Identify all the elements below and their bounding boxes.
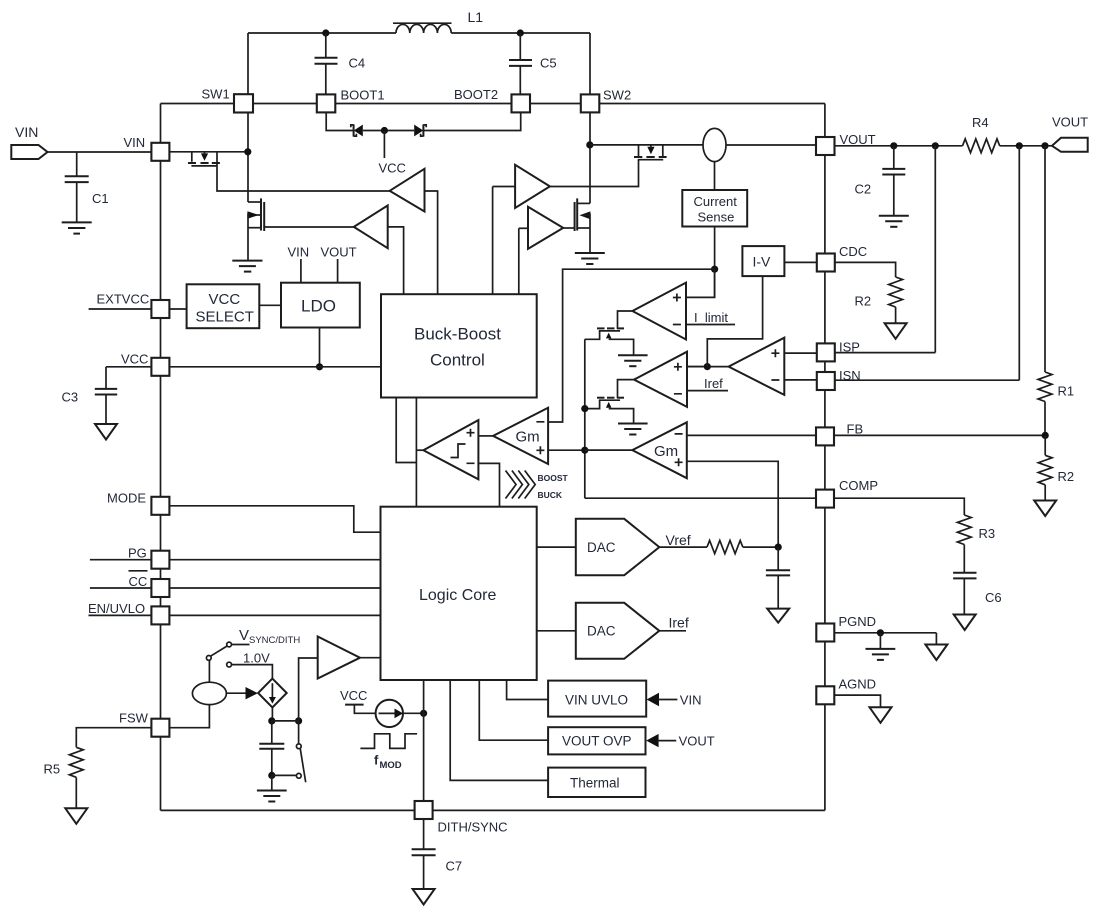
svg-text:LDO: LDO [301,297,336,316]
svg-text:R1: R1 [1058,384,1075,399]
ground C3 [95,424,117,440]
wire U8 plus to ISP [784,352,816,354]
capacitor C1 [65,152,109,222]
node LDO VCC rail junction [316,363,323,370]
node ISN sense junction [1016,142,1023,149]
pin CDC [817,244,867,272]
wire Gm1 output [585,449,633,451]
pin EN/UVLO stub [88,601,151,616]
wire VOUT rail [835,145,1052,147]
wire PGND pin [835,632,937,634]
resistor R2 divider [1038,435,1074,500]
pin EN/UVLO [151,606,169,624]
wire VOUT arrow input [646,734,715,749]
wire VCC pin to C3 [106,366,151,368]
capacitor C2 [855,146,906,216]
svg-text:VIN: VIN [288,245,310,260]
svg-text:VCC: VCC [340,688,367,703]
svg-text:PGND: PGND [839,614,877,629]
wire Gm1 plus to Vref node [687,461,778,547]
svg-text:VOUT: VOUT [679,734,715,749]
svg-text:R2: R2 [855,294,872,309]
wire current sense output [714,227,716,298]
wire ellipse to diamond arrow [226,687,258,699]
svg-text:R5: R5 [44,762,61,777]
block DAC Vref [576,519,660,576]
wire Q2 gate to driver [264,226,354,228]
svg-text:I-V: I-V [753,254,772,270]
svg-text:C5: C5 [540,56,557,71]
block VCC SELECT [187,284,260,328]
ground dither cap [257,775,287,801]
wire logic to DAC2 [537,630,576,632]
resistor R1 [1038,372,1074,435]
node U8 output junction [704,363,711,370]
svg-text:Current: Current [694,194,738,209]
current source fMOD [376,700,404,727]
wire dither node to buffer [299,658,318,721]
wire U8 minus to ISN [784,379,816,381]
wire U7 minus stub Iref [687,376,728,391]
wire chip left boundary [160,104,162,811]
block Thermal [548,768,645,797]
wire COMP rail [585,498,965,515]
svg-text:ISP: ISP [839,340,860,355]
svg-text:VCC: VCC [209,291,241,308]
wire U9 to logic core [360,657,381,659]
resistor R3 [957,515,995,572]
ground C2 [879,216,909,227]
node dither cap top [268,717,275,724]
svg-text:Gm: Gm [516,429,540,446]
wire LDO output to VCC rail [319,328,321,367]
wire Gm1 minus FB wire [687,434,1046,436]
svg-text:VOUT: VOUT [1052,115,1088,130]
wire Gm2 plus input [548,449,585,451]
buffer U4 gate driver Q4 [519,207,563,294]
transistor M1 clamp [585,328,634,355]
pad VOUT output [1052,115,1088,152]
wire BOOT1 bootstrap stub [326,112,353,130]
svg-text:VIN: VIN [124,135,146,150]
wire U8 output to I-V [707,276,762,367]
pin VOUT [816,132,876,155]
comparator U6 I_limit [632,283,686,340]
current source ellipse FSW [192,660,226,704]
wire sense signal to Gm2 minus [548,269,715,422]
supply VCC fmod [340,688,376,713]
block DAC Iref [576,603,660,659]
ground PGND triangle [925,633,947,660]
capacitor C6 [953,573,1002,615]
wire top rail [248,32,590,34]
wire Iref output stub [659,615,689,631]
pin PGND [816,614,876,642]
pin EXTVCC [151,300,169,318]
node C2 junction [890,142,897,149]
svg-text:C4: C4 [349,56,366,71]
capacitor Vref filter [766,547,790,609]
pin ISP [817,340,860,362]
wire VCC stub from diode node [379,131,406,176]
svg-text:BUCK: BUCK [538,490,563,500]
wire FSW to switch pole [170,705,210,728]
inductor L1 [393,9,483,33]
ground M1 [618,355,648,366]
node dither switch top [295,717,302,724]
resistor Vref filter [707,541,743,554]
pin BOOT1 [317,88,385,113]
diode D1 bootstrap [351,124,363,136]
svg-text:L1: L1 [468,9,484,25]
svg-text:C6: C6 [985,590,1002,605]
wire ISP feedback [835,146,936,353]
wire CC to logic core [170,587,381,589]
node SW1 switch junction [244,148,251,155]
wire U6 output to M1 [618,311,633,329]
wire U6 minus stub I_limit [686,310,735,325]
block I-V converter [742,246,784,276]
wire Q1 gate to driver [217,152,390,191]
ground Q2 source [232,261,262,272]
wire AGND pin [835,695,881,707]
wire VCC SELECT to LDO [259,304,281,306]
node Gm1 output junction [581,447,588,454]
current sense probe [703,128,726,161]
node current sense output junction [711,266,718,273]
node PGND junction [877,629,884,636]
wire contact VSYNC stub [232,627,301,646]
ground R5 [65,808,87,824]
block VOUT OVP [548,727,645,754]
wire MODE to logic core [170,506,381,532]
svg-text:Control: Control [430,351,485,370]
svg-text:R4: R4 [972,115,989,130]
capacitor C7 [412,849,463,889]
wire DITH/SYNC to C7 [423,819,425,849]
wire diamond to cap node [271,707,273,721]
ground Vref filter [767,609,789,623]
wire U7 plus input [687,366,707,368]
transistor Q3 high-side PMOS boost leg [634,145,667,160]
switch dither shorting [272,721,306,782]
svg-text:VIN: VIN [680,693,702,708]
block Current Sense [682,190,747,227]
comparator U5 hysteretic mode [416,420,478,479]
wire SW1 column [247,33,249,202]
pin AGND [816,677,876,705]
svg-text:Iref: Iref [669,615,689,631]
node SW2 switch junction [586,141,593,148]
wire SW2 node to Q3 [590,144,703,146]
ground C1 [62,222,92,233]
svg-text:C7: C7 [446,859,463,874]
diode D2 bootstrap [414,124,426,136]
comparator U7 Iref [634,352,687,407]
wire BB control to logic core jog [396,398,416,463]
node C5 top rail junction [517,29,524,36]
svg-text:AGND: AGND [839,677,877,692]
svg-text:VOUT: VOUT [840,132,876,147]
wire Vref output [659,532,707,548]
wire VIN arrow input [647,693,702,708]
pin MODE [107,491,169,515]
wire U6 plus input [686,269,715,297]
svg-text:C1: C1 [92,191,109,206]
wire R1 top [1044,146,1046,372]
wire LDO VIN input stub [288,245,310,283]
svg-text:DITH/SYNC: DITH/SYNC [438,820,508,835]
wire logic to thermal [450,680,548,780]
svg-text:MOD: MOD [380,760,402,771]
capacitor C5 [509,33,557,95]
svg-text:VCC: VCC [379,161,406,176]
node feedback top junction [1041,142,1048,149]
ground M2 [618,424,648,435]
wire CDC pin to R2 [835,262,896,277]
block LDO [281,283,360,328]
wire U8 output to U7 [687,366,729,368]
svg-text:VCC: VCC [121,352,148,367]
svg-text:C3: C3 [62,390,79,405]
wire I-V to CDC pin [784,261,816,263]
wire U5 minus input to logic core [478,463,499,506]
pin ISN [817,368,861,390]
pad VIN input [11,124,47,159]
svg-text:DAC: DAC [587,540,616,555]
pin CC stub [90,571,151,589]
pin COMP [816,478,878,508]
block Logic Core [381,507,537,680]
wire gate bias rail [584,339,586,498]
wire BB control to hysteresis comparator output [415,398,417,507]
svg-text:Gm: Gm [654,443,678,460]
amplifier Gm1 error amp [632,422,687,478]
svg-text:VIN: VIN [15,124,38,140]
pin DITH/SYNC [415,801,508,835]
ground R2 [885,323,907,339]
pin PG [151,551,169,569]
svg-text:BOOT2: BOOT2 [454,87,498,102]
wire EN/UVLO to logic core [170,614,381,616]
svg-text:f: f [374,753,379,768]
wire SW2 column [589,33,591,203]
capacitor C4 [315,33,366,95]
wire between diodes [363,130,414,132]
wire diode to BOOT2 [423,112,520,131]
pin VIN [124,135,170,161]
pin BOOT2 [454,87,530,112]
transistor Q2 low-side NMOS buck leg [247,198,264,260]
ground AGND [870,707,892,723]
svg-text:SELECT: SELECT [196,309,254,326]
wire EXTVCC to VCC SELECT [170,308,187,310]
wire probe to current sense box [714,162,716,190]
transistor M2 clamp [585,398,634,424]
wire logic to vin uvlo [507,680,548,700]
svg-text:BOOST: BOOST [538,473,569,483]
node M2 gate junction [581,405,588,412]
pin EXTVCC stub [89,292,152,310]
node Vref RC junction [775,544,782,551]
wire chip right boundary [824,104,826,811]
ground C6 [954,615,976,631]
wire DITH/SYNC column [423,680,425,801]
svg-text:Buck-Boost: Buck-Boost [414,325,501,344]
block VIN UVLO [548,681,646,717]
svg-text:Vref: Vref [666,532,691,548]
transistor Q1 high-side PMOS buck leg [170,152,245,166]
transistor Q4 low-side NMOS boost leg [575,198,591,252]
svg-text:R2: R2 [1058,469,1075,484]
ground R2 divider [1034,501,1056,517]
resistor R5 [44,747,84,808]
wire logic to DAC1 [537,546,576,548]
svg-text:Logic Core: Logic Core [419,587,496,604]
svg-text:FSW: FSW [119,711,149,726]
wire VCC rail [170,366,381,368]
amplifier U8 current sense diff amp [729,338,785,395]
node dither cap bottom [268,772,275,779]
wire chip top edge through SW pins [161,103,825,105]
svg-text:SW2: SW2 [603,88,631,103]
svg-text:EXTVCC: EXTVCC [97,292,150,307]
svg-text:BOOT1: BOOT1 [341,88,385,103]
wire ISN feedback [835,146,1020,380]
wire dither node rail [272,720,299,722]
svg-text:EN/UVLO: EN/UVLO [88,601,145,616]
svg-text:I_limit: I_limit [694,310,728,325]
svg-text:R3: R3 [979,526,996,541]
capacitor dither [259,721,284,776]
svg-text:SYNC/DITH: SYNC/DITH [249,635,300,646]
buffer U3 gate driver Q3 [493,165,550,294]
wire VIN pad to pin [48,151,152,153]
svg-text:Sense: Sense [698,210,735,225]
node FB divider junction [1042,432,1049,439]
svg-text:PG: PG [128,546,147,561]
block Buck-Boost Control [381,294,537,397]
dependent source diamond [258,679,287,708]
wire fMOD source output [403,712,424,714]
pin SW2 [581,88,631,113]
ground Q4 source [575,253,605,264]
wire U3 output to Q3 gate [550,160,639,187]
wire probe to VOUT pin [726,144,816,146]
node ISP sense junction [932,142,939,149]
svg-text:CDC: CDC [839,244,867,259]
switch SYNC/DITH select [206,642,231,667]
svg-text:1.0V: 1.0V [243,651,270,666]
svg-text:VIN UVLO: VIN UVLO [565,693,628,708]
svg-text:VOUT OVP: VOUT OVP [562,734,632,749]
buffer U9 sync input [318,637,360,679]
wire filter to node [743,546,778,548]
resistor R2 compensation [855,277,903,323]
pin CC [151,579,169,597]
svg-text:VOUT: VOUT [321,245,357,260]
amplifier Gm2 [478,408,548,464]
node SW1 top rail / C4 junction [322,29,329,36]
wire U4 output to Q4 gate [563,227,574,229]
ground C7 [413,889,435,905]
svg-text:V: V [239,627,249,644]
svg-text:C2: C2 [855,182,872,197]
svg-text:COMP: COMP [839,478,878,493]
svg-text:ISN: ISN [839,368,861,383]
svg-text:CC: CC [129,574,148,589]
wire PG to logic core [170,559,381,561]
node fMOD junction [420,710,427,717]
symbol fMOD square wave [360,734,417,771]
wire LDO VOUT input stub [321,245,357,283]
capacitor C3 [62,367,118,424]
wire contact 1.0V to diamond [232,651,273,679]
symbol boost-buck chevrons [506,471,569,501]
pin VCC [121,352,169,376]
buffer U2 gate driver Q2 [354,206,404,295]
node VCC diode junction [381,127,388,134]
wire FSW to R5 [76,728,151,748]
wire logic to vout ovp [479,680,548,740]
svg-text:FB: FB [847,422,864,437]
wire U7 output to M2 [618,380,635,399]
ground PGND bars [866,633,896,660]
pin FB [816,422,863,446]
pin FSW [119,711,169,737]
svg-text:SW1: SW1 [202,87,230,102]
svg-text:DAC: DAC [587,624,616,639]
pin PG stub [90,546,151,561]
buffer U1 gate driver Q1 [379,161,438,295]
wire chip bottom edge [161,809,825,811]
pin SW1 [202,87,254,113]
svg-text:MODE: MODE [107,491,146,506]
svg-text:Iref: Iref [704,376,723,391]
svg-text:Thermal: Thermal [570,776,620,791]
resistor R4 [963,115,1000,153]
